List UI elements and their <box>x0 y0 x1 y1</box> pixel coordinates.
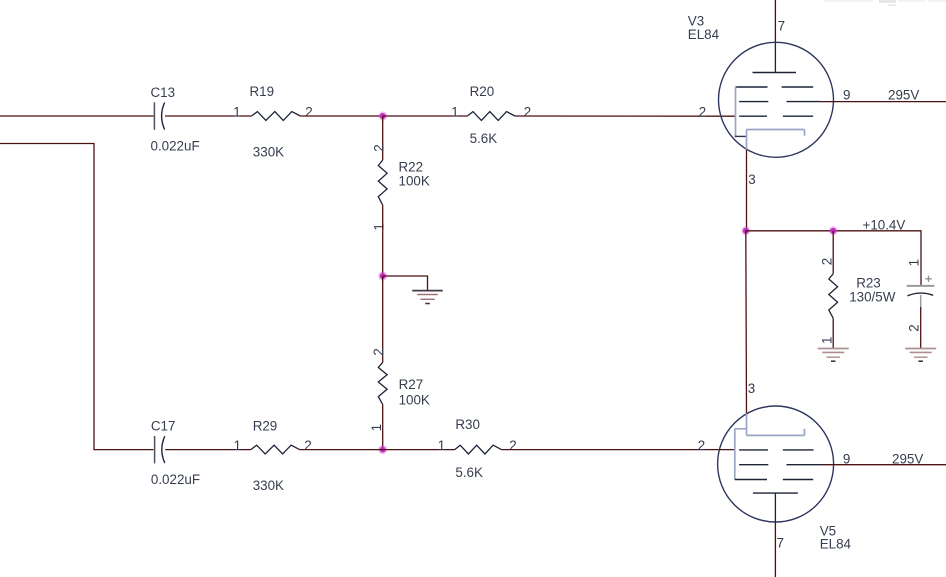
V3/EL84 label <box>688 13 720 42</box>
svg-text:2: 2 <box>698 438 705 453</box>
V3 grid g2 row <box>739 101 820 103</box>
V5 bus-cathode jog <box>735 428 747 430</box>
svg-text:C17: C17 <box>151 418 176 433</box>
wire node D to cap corner <box>746 231 921 286</box>
svg-text:1: 1 <box>371 223 386 230</box>
resistor R30 <box>438 417 517 480</box>
node A junction <box>378 111 387 120</box>
svg-text:9: 9 <box>843 452 850 467</box>
svg-text:2: 2 <box>524 105 531 120</box>
wire node E down to R23 <box>832 231 834 274</box>
svg-text:5.6K: 5.6K <box>455 465 483 480</box>
svg-text:R27: R27 <box>399 377 424 392</box>
svg-text:R29: R29 <box>253 418 278 433</box>
wire cap to ground <box>920 307 922 348</box>
ground under R23 <box>818 349 849 362</box>
node D junction <box>741 226 750 235</box>
V3 bus-cathode jog <box>735 135 747 137</box>
svg-text:100K: 100K <box>399 174 430 189</box>
wire node C to R30 <box>383 449 455 451</box>
top edge artifact <box>824 0 946 6</box>
ground middle <box>412 291 443 304</box>
svg-text:3: 3 <box>748 381 755 396</box>
wire R20 to V3 grid <box>515 115 736 117</box>
op-amp V5 envelope circle <box>718 406 834 522</box>
svg-text:9: 9 <box>843 88 850 103</box>
wire V3 screen pin 9 to 295V <box>820 101 946 103</box>
svg-text:2: 2 <box>371 348 386 355</box>
svg-text:330K: 330K <box>253 478 284 493</box>
svg-text:0.022uF: 0.022uF <box>151 138 200 153</box>
op-amp V3 envelope circle <box>719 42 834 157</box>
svg-text:130/5W: 130/5W <box>849 290 896 305</box>
svg-text:1: 1 <box>233 105 240 120</box>
svg-text:2: 2 <box>819 258 834 265</box>
wire R19 to node A <box>300 115 382 117</box>
resistor R19 <box>233 84 312 160</box>
svg-text:100K: 100K <box>399 392 430 407</box>
resistor R22 <box>371 144 429 230</box>
V5 plate <box>753 493 798 522</box>
wire V3 plate pin 7 <box>774 0 776 43</box>
resistor R29 <box>234 418 312 493</box>
svg-text:0.022uF: 0.022uF <box>151 472 200 487</box>
resistor R23 <box>819 258 895 344</box>
resistor R20 <box>451 84 531 146</box>
V5 grid bus <box>734 429 736 480</box>
wire input top <box>0 115 154 117</box>
svg-text:5.6K: 5.6K <box>470 131 498 146</box>
svg-text:EL84: EL84 <box>688 27 720 42</box>
svg-text:2: 2 <box>371 144 386 151</box>
wire node B down to R27 <box>382 276 384 362</box>
V5 cathode <box>747 414 805 436</box>
V5/EL84 label <box>820 523 852 551</box>
svg-text:R20: R20 <box>470 84 495 99</box>
svg-text:2: 2 <box>699 105 706 120</box>
node B junction <box>378 271 387 280</box>
svg-text:7: 7 <box>777 536 784 551</box>
wire R22 to node B <box>382 205 384 276</box>
svg-text:3: 3 <box>748 172 755 187</box>
svg-text:2: 2 <box>906 324 921 331</box>
svg-text:2: 2 <box>304 438 311 453</box>
wire input bottom with corner <box>0 144 154 450</box>
svg-text:+10.4V: +10.4V <box>863 218 906 233</box>
wire R23 to ground <box>832 318 834 348</box>
svg-text:2: 2 <box>509 438 516 453</box>
capacitor C polarized <box>906 259 934 332</box>
wire R27 to node C <box>382 404 384 449</box>
V3 grid g1 row <box>736 86 814 88</box>
wire R29 to node C <box>300 449 383 451</box>
svg-text:EL84: EL84 <box>820 536 852 551</box>
wire node A to R20 <box>383 115 468 117</box>
V5 grid g2 row <box>739 464 821 466</box>
svg-text:R19: R19 <box>250 84 275 99</box>
capacitor C17 <box>151 418 200 487</box>
V3 cathode <box>747 130 805 152</box>
svg-text:1: 1 <box>234 438 241 453</box>
wire C17 to R29 <box>165 449 251 451</box>
svg-text:1: 1 <box>369 424 384 431</box>
svg-text:1: 1 <box>819 337 834 344</box>
wire node D down to V5 cathode <box>745 231 748 415</box>
V5 grid g3 row <box>735 479 813 481</box>
svg-text:295V: 295V <box>892 451 923 466</box>
V3 grid g3 row <box>739 115 813 117</box>
svg-text:1: 1 <box>451 105 458 120</box>
V3 grid bus <box>735 87 737 136</box>
wire V5 plate pin 7 <box>774 522 776 577</box>
node C junction <box>378 445 387 454</box>
V3 plate <box>753 43 797 73</box>
wire node A down to R22 <box>382 116 384 160</box>
svg-text:R23: R23 <box>856 276 881 291</box>
svg-text:R30: R30 <box>455 417 480 432</box>
svg-text:1: 1 <box>438 438 445 453</box>
wire R30 to V5 grid <box>501 449 734 451</box>
ground under cap <box>905 349 936 362</box>
svg-text:R22: R22 <box>399 160 424 175</box>
svg-text:C13: C13 <box>151 85 176 100</box>
wire node B to ground stub <box>383 276 428 290</box>
wire V5 screen pin 9 to 295V <box>821 464 946 466</box>
svg-text:1: 1 <box>906 259 921 266</box>
svg-text:295V: 295V <box>888 87 919 102</box>
V5 grid g1 row <box>739 449 813 451</box>
svg-text:330K: 330K <box>253 145 284 160</box>
resistor R27 <box>369 348 430 431</box>
wire C13 to R19 <box>165 115 252 117</box>
capacitor C13 <box>151 85 200 154</box>
wire V3 cathode pin 3 down to node D <box>746 150 748 231</box>
svg-text:2: 2 <box>305 105 312 120</box>
node E junction <box>829 226 838 235</box>
svg-text:7: 7 <box>778 18 785 33</box>
